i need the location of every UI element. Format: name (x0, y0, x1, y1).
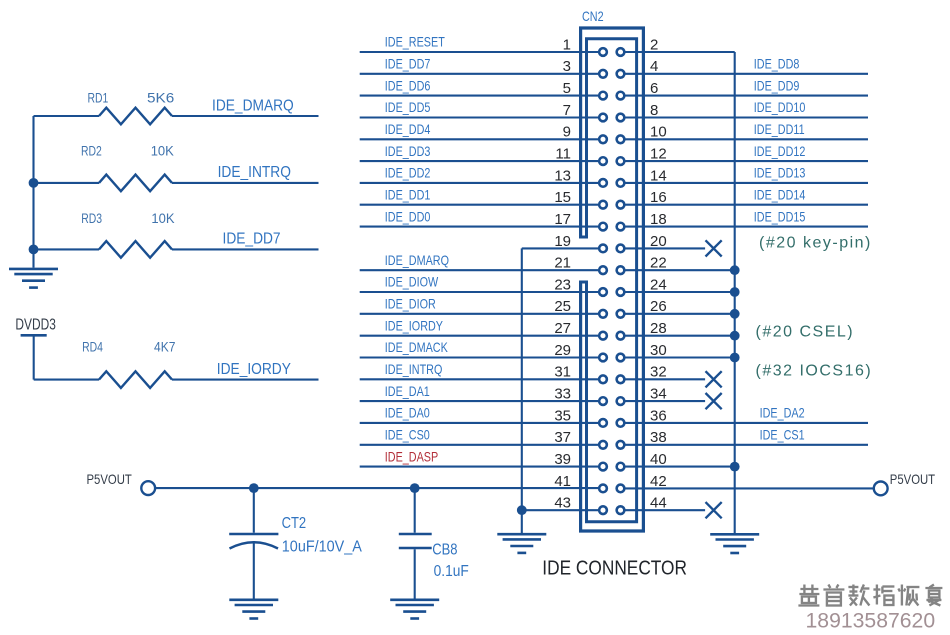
node: pin 24 junction on right bus (730, 287, 740, 297)
pin 36 contact (617, 419, 625, 427)
svg-text:1: 1 (563, 36, 571, 53)
wire: pin 1 (360, 51, 598, 53)
svg-text:43: 43 (554, 495, 571, 512)
pin 32 contact (617, 375, 625, 383)
pin 35 contact (599, 419, 607, 427)
no-connect pin 44 (706, 502, 722, 518)
pin 15 contact (599, 201, 607, 209)
pin 12 contact (617, 157, 625, 165)
pin 24 contact (617, 288, 625, 296)
svg-text:7: 7 (563, 102, 571, 119)
wire: pin 4 (625, 73, 868, 75)
pin 26 contact (617, 310, 625, 318)
svg-text:34: 34 (650, 386, 667, 403)
node: CT2 junction (249, 483, 259, 493)
wire: pin 38 (625, 444, 868, 446)
svg-text:10uF/10V_A: 10uF/10V_A (282, 538, 363, 556)
pin 39 contact (599, 463, 607, 471)
power DVDD3 symbol (21, 334, 47, 337)
svg-text:IDE_INTRQ: IDE_INTRQ (385, 362, 443, 377)
node: CB8 junction (410, 483, 420, 493)
wire: pin 40 (625, 466, 734, 468)
wire: pin 5 (360, 95, 598, 97)
svg-text:IDE_DD2: IDE_DD2 (385, 165, 431, 180)
pin 44 contact (617, 506, 625, 514)
svg-text:4: 4 (650, 58, 658, 75)
pin 31 contact (599, 375, 607, 383)
wire: pin 26 (625, 313, 734, 315)
svg-text:18: 18 (650, 211, 667, 228)
wire: pin 35 (360, 422, 598, 424)
svg-text:IDE_INTRQ: IDE_INTRQ (218, 165, 291, 182)
svg-text:39: 39 (554, 451, 571, 468)
svg-text:IDE_DA2: IDE_DA2 (760, 405, 805, 420)
wire: right ground bus (pin 2) (734, 52, 736, 534)
wire: RD1 left lead (34, 115, 100, 117)
svg-text:P5VOUT: P5VOUT (87, 471, 133, 487)
svg-text:19: 19 (554, 233, 571, 250)
wire: pin 31 (360, 378, 598, 380)
svg-text:10K: 10K (151, 143, 174, 158)
svg-text:13: 13 (554, 167, 571, 184)
wire: pin 8 (625, 116, 868, 118)
svg-text:IDE_DD7: IDE_DD7 (385, 56, 431, 71)
svg-text:35: 35 (554, 407, 571, 424)
no-connect pin 32 (706, 371, 722, 387)
pin 1 contact (599, 48, 607, 56)
wire: pin 17 (360, 226, 598, 228)
svg-text:IDE_DD6: IDE_DD6 (385, 78, 431, 93)
pin 2 contact (617, 48, 625, 56)
wire: pin 2 (625, 51, 734, 53)
pin 5 contact (599, 92, 607, 100)
svg-text:IDE_DD1: IDE_DD1 (385, 187, 431, 202)
wire: pin 11 (360, 160, 598, 162)
wire: RD4 left lead (34, 379, 99, 381)
svg-text:23: 23 (554, 276, 571, 293)
wire: pin 13 (360, 182, 598, 184)
no-connect pin 20 (706, 240, 722, 256)
svg-text:38: 38 (650, 429, 667, 446)
wire: RD2 left lead (34, 182, 100, 184)
wire: P5VOUT rail to pin 41 (155, 487, 598, 489)
svg-text:26: 26 (650, 298, 667, 315)
node: pin 26 junction on right bus (730, 309, 740, 319)
svg-text:20: 20 (650, 233, 667, 250)
wire: pin 23 (360, 291, 598, 293)
svg-text:IDE_DD12: IDE_DD12 (754, 144, 806, 159)
ground: CB8 (390, 600, 439, 619)
wire: pin 37 (360, 444, 598, 446)
svg-text:IDE CONNECTOR: IDE CONNECTOR (542, 556, 687, 579)
svg-text:15: 15 (554, 189, 571, 206)
pin 4 contact (617, 70, 625, 78)
svg-text:31: 31 (554, 364, 571, 381)
svg-text:4K7: 4K7 (154, 339, 175, 355)
svg-text:RD2: RD2 (81, 143, 102, 159)
svg-text:IDE_DD14: IDE_DD14 (754, 187, 806, 202)
svg-text:IDE_DIOW: IDE_DIOW (385, 275, 439, 290)
svg-text:IDE_DMARQ: IDE_DMARQ (212, 98, 294, 115)
wire: pin 34 (625, 400, 705, 402)
node: RD3 junction on ground rail (29, 245, 39, 255)
pin 21 contact (599, 266, 607, 274)
node: pin43 junction on ground bus (517, 505, 527, 515)
svg-text:33: 33 (554, 386, 571, 403)
pin 6 contact (617, 92, 625, 100)
wire: pin 7 (360, 116, 598, 118)
connector CN2 key notch caps (579, 237, 588, 282)
svg-text:CT2: CT2 (282, 515, 307, 532)
pin 17 contact (599, 223, 607, 231)
node: RD2 junction on ground rail (29, 178, 39, 188)
pin 9 contact (599, 135, 607, 143)
pin 20 contact (617, 245, 625, 253)
svg-text:28: 28 (650, 320, 667, 337)
svg-text:21: 21 (554, 255, 571, 272)
svg-text:P5VOUT: P5VOUT (890, 471, 936, 487)
connector CN2 outer housing (581, 28, 644, 531)
wire: pin 29 (360, 356, 598, 358)
svg-text:RD3: RD3 (81, 211, 102, 227)
resistor RD1 (99, 108, 172, 125)
no-connect pin 34 (706, 393, 722, 409)
svg-text:17: 17 (554, 211, 571, 228)
pin 28 contact (617, 332, 625, 340)
svg-text:3: 3 (563, 58, 571, 75)
resistor RD2 (99, 175, 172, 192)
wire: pin 3 (360, 73, 598, 75)
svg-text:2: 2 (650, 36, 658, 53)
svg-text:IDE_DD4: IDE_DD4 (385, 122, 431, 137)
wire: pin 20 (625, 247, 705, 249)
connector CN2 inner housing (587, 39, 637, 522)
svg-text:6: 6 (650, 80, 658, 97)
pin 30 contact (617, 354, 625, 362)
wire: pin 15 (360, 204, 598, 206)
wire: pin 24 (625, 291, 734, 293)
ground: right bus (710, 534, 759, 553)
svg-text:44: 44 (650, 495, 667, 512)
node: pin 30 junction on right bus (730, 353, 740, 363)
wire: pin 32 (625, 378, 705, 380)
wire: pin 44 (625, 509, 705, 511)
pin 7 contact (599, 114, 607, 122)
wire: pin 36 (625, 422, 868, 424)
svg-text:IDE_IORDY: IDE_IORDY (217, 361, 291, 378)
svg-text:14: 14 (650, 167, 667, 184)
svg-text:11: 11 (555, 146, 571, 163)
pin 29 contact (599, 354, 607, 362)
pin 37 contact (599, 441, 607, 449)
node: pin 28 junction on right bus (730, 331, 740, 341)
watermark CJK 盘首数据恢复 (vector approximation) (798, 585, 942, 606)
svg-text:18913587620: 18913587620 (806, 610, 936, 633)
node P5VOUT right terminal (874, 482, 888, 496)
pin 3 contact (599, 70, 607, 78)
node: pin 40 junction on right bus (730, 462, 740, 472)
svg-text:5K6: 5K6 (147, 91, 174, 106)
pin 18 contact (617, 223, 625, 231)
capacitor CT2 (229, 488, 278, 599)
svg-text:IDE_DASP: IDE_DASP (385, 449, 438, 464)
svg-text:12: 12 (650, 146, 667, 163)
resistor RD4 (99, 371, 172, 388)
ground: pin19/43 bus (497, 534, 546, 553)
wire: pin 19 (522, 247, 598, 249)
svg-text:IDE_RESET: IDE_RESET (385, 35, 445, 50)
wire: pin 18 (625, 226, 868, 228)
pin 41 contact (599, 485, 607, 493)
pin 11 contact (599, 157, 607, 165)
svg-text:IDE_DIOR: IDE_DIOR (385, 296, 436, 311)
capacitor CB8 (399, 488, 432, 599)
pin 8 contact (617, 114, 625, 122)
resistor RD3 (99, 241, 172, 258)
pin 40 contact (617, 463, 625, 471)
svg-text:24: 24 (650, 276, 667, 293)
svg-text:5: 5 (563, 80, 571, 97)
svg-text:CN2: CN2 (582, 9, 604, 24)
svg-text:RD4: RD4 (82, 339, 103, 355)
wire: pin 22 (625, 269, 734, 271)
wire: RD3 to IDE_DD7 (172, 248, 319, 250)
svg-text:IDE_DD10: IDE_DD10 (754, 100, 806, 115)
svg-text:16: 16 (650, 189, 667, 206)
svg-text:0.1uF: 0.1uF (434, 564, 469, 581)
wire: pin 10 (625, 138, 868, 140)
svg-text:(#32 IOCS16): (#32 IOCS16) (756, 362, 873, 379)
svg-text:10: 10 (650, 124, 667, 141)
svg-text:41: 41 (554, 473, 571, 490)
wire: RD2 to IDE_INTRQ (172, 182, 319, 184)
wire: left ground rail (32, 116, 34, 268)
svg-text:(#20 CSEL): (#20 CSEL) (756, 324, 855, 341)
svg-text:30: 30 (650, 342, 667, 359)
wire: pin 6 (625, 95, 868, 97)
svg-text:IDE_IORDY: IDE_IORDY (385, 318, 443, 333)
pin 16 contact (617, 201, 625, 209)
svg-text:IDE_DD13: IDE_DD13 (754, 165, 806, 180)
svg-text:IDE_DD5: IDE_DD5 (385, 100, 431, 115)
svg-text:IDE_DA1: IDE_DA1 (385, 384, 430, 399)
node P5VOUT left terminal (141, 481, 155, 495)
svg-text:10K: 10K (151, 211, 174, 226)
svg-text:32: 32 (650, 364, 667, 381)
svg-text:29: 29 (554, 342, 571, 359)
pin 33 contact (599, 397, 607, 405)
wire: pin 21 (360, 269, 598, 271)
wire: pin 12 (625, 160, 868, 162)
pin 14 contact (617, 179, 625, 187)
svg-text:37: 37 (554, 429, 571, 446)
wire: pin 14 (625, 182, 868, 184)
pin 34 contact (617, 397, 625, 405)
pin 43 contact (599, 506, 607, 514)
svg-text:IDE_DD3: IDE_DD3 (385, 144, 431, 159)
svg-text:IDE_DD7: IDE_DD7 (223, 231, 281, 248)
svg-text:8: 8 (650, 102, 658, 119)
svg-text:40: 40 (650, 451, 667, 468)
wire: RD1 to IDE_DMARQ (172, 115, 319, 117)
pin 38 contact (617, 441, 625, 449)
ground: left rail ground (9, 269, 58, 288)
wire: pin 28 (625, 335, 734, 337)
wire: pin 33 (360, 400, 598, 402)
svg-text:IDE_DD11: IDE_DD11 (754, 122, 805, 137)
svg-text:IDE_DA0: IDE_DA0 (385, 405, 430, 420)
svg-text:(#20 key-pin): (#20 key-pin) (759, 234, 872, 251)
svg-text:9: 9 (563, 124, 571, 141)
wire: pin 43 (522, 509, 598, 511)
svg-text:IDE_CS0: IDE_CS0 (385, 427, 430, 442)
wire: pin 39 (360, 466, 598, 468)
wire: RD4 to IDE_IORDY (172, 379, 319, 381)
svg-text:IDE_DD8: IDE_DD8 (754, 56, 800, 71)
svg-text:IDE_DD0: IDE_DD0 (385, 209, 431, 224)
pin 13 contact (599, 179, 607, 187)
node: pin 22 junction on right bus (730, 265, 740, 275)
wire: pin 25 (360, 313, 598, 315)
svg-text:IDE_DD15: IDE_DD15 (754, 209, 806, 224)
wire: pin 9 (360, 138, 598, 140)
pin 19 contact (599, 245, 607, 253)
svg-text:CB8: CB8 (432, 541, 457, 558)
pin 27 contact (599, 332, 607, 340)
svg-text:DVDD3: DVDD3 (15, 316, 56, 333)
wire: pin 42 (625, 487, 873, 489)
pin 25 contact (599, 310, 607, 318)
svg-text:IDE_DMARQ: IDE_DMARQ (385, 253, 449, 268)
svg-text:22: 22 (650, 255, 667, 272)
wire: pin 30 (625, 356, 734, 358)
svg-text:IDE_CS1: IDE_CS1 (760, 427, 805, 442)
svg-text:IDE_DD9: IDE_DD9 (754, 78, 800, 93)
pin 23 contact (599, 288, 607, 296)
svg-text:36: 36 (650, 407, 667, 424)
pin 22 contact (617, 266, 625, 274)
wire: RD3 left lead (34, 248, 100, 250)
wire: pin 16 (625, 204, 868, 206)
svg-text:RD1: RD1 (88, 90, 109, 106)
wire: pin 27 (360, 335, 598, 337)
pin 10 contact (617, 135, 625, 143)
svg-text:25: 25 (554, 298, 571, 315)
svg-text:42: 42 (650, 473, 667, 490)
svg-text:IDE_DMACK: IDE_DMACK (385, 340, 449, 355)
pin 42 contact (617, 485, 625, 493)
ground: CT2 (229, 600, 278, 619)
wire: pin19/pin43 ground bus (521, 248, 523, 534)
svg-text:27: 27 (554, 320, 571, 337)
